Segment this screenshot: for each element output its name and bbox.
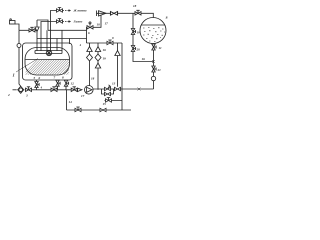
- valve 18 with handwheel on top pipe: [135, 10, 141, 15]
- valve 4 vertical: [35, 82, 39, 88]
- svg-text:12: 12: [71, 82, 75, 86]
- flow arrow into pump: [78, 88, 82, 91]
- riser x69.5 into jacket: [69, 39, 71, 45]
- lower pipe y110: [67, 109, 132, 111]
- drop x65: [66, 90, 68, 110]
- valve17 with round handle: [87, 22, 93, 29]
- line valve3 to drain4: [32, 89, 37, 91]
- valve lower plain: [100, 108, 106, 111]
- svg-text:19: 19: [137, 31, 141, 35]
- line diamond to valve3: [24, 89, 27, 91]
- svg-text:Ж помпе: Ж помпе: [73, 9, 88, 13]
- valve 21 lower: [152, 66, 156, 72]
- valve 19 on riser x133: [131, 29, 135, 35]
- valve 14: [115, 87, 121, 90]
- svg-text:21: 21: [157, 68, 162, 72]
- svg-text:15: 15: [103, 102, 107, 106]
- pipe y30 horizontal to x86.5: [48, 29, 87, 31]
- svg-text:17: 17: [105, 22, 109, 26]
- valve on top pipe plain: [110, 12, 117, 16]
- circle restrictor: [151, 76, 155, 80]
- pump circle with cross: [85, 86, 94, 95]
- svg-text:20: 20: [136, 48, 141, 52]
- wire left drop x20 down to diamond: [19, 30, 21, 86]
- tick on top pipe left end: [96, 11, 98, 17]
- sphere tank: [140, 18, 166, 44]
- jacket outer shell: [23, 43, 73, 80]
- wire valve V1 left leg down x50.5: [51, 11, 57, 52]
- pipe y38.5 horizontal: [37, 38, 87, 40]
- valve 12 with stem: [71, 87, 77, 92]
- check triangle on column C: [115, 51, 120, 56]
- valve 11 below sphere: [152, 44, 156, 50]
- valve with handwheel on y30 line: [29, 27, 35, 32]
- drain from jacket x36.5: [36, 80, 38, 90]
- sphere liquid line: [142, 24, 165, 26]
- dashed arrow V2: [63, 21, 71, 23]
- svg-text:11: 11: [159, 46, 162, 50]
- dashed arrow V1: [63, 10, 71, 12]
- junction tick on outlet: [138, 88, 141, 91]
- sphere liquid speckle: [143, 28, 165, 42]
- tank liquid hatching: [26, 60, 69, 75]
- check valve apex down on x37: [35, 27, 39, 32]
- wire valve17 left leg down: [86, 27, 89, 43]
- check triangle B2: [95, 63, 100, 68]
- svg-text:3: 3: [25, 94, 28, 98]
- internal header rect: [35, 51, 62, 54]
- circle trap on left drop: [17, 44, 21, 48]
- valve 9 on bus: [107, 40, 113, 45]
- riser x57: [56, 39, 58, 52]
- drain valve 7: [56, 80, 60, 86]
- junction tick y61.5: [152, 60, 155, 63]
- svg-text:13: 13: [112, 82, 116, 86]
- valve V2 with handwheel: [57, 19, 63, 24]
- bypass loop under valve 13: [102, 89, 114, 94]
- valve 13 diag stem: [105, 85, 111, 91]
- wire valve V2 left leg down x41: [41, 22, 57, 52]
- liquid level line in tank: [25, 59, 69, 61]
- svg-text:1: 1: [13, 73, 15, 78]
- drain x59.5 from jacket: [57, 80, 59, 90]
- svg-text:2: 2: [7, 93, 10, 97]
- wire valve17 right to riser: [93, 15, 101, 27]
- drain x68.5 from jacket: [65, 80, 67, 90]
- svg-text:14: 14: [69, 100, 73, 104]
- diamond on column A: [87, 54, 93, 61]
- vertical x37 with corner: [36, 20, 38, 51]
- label 1 leader line: [16, 59, 38, 73]
- check triangle on column A: [87, 47, 92, 52]
- svg-text:19: 19: [103, 57, 107, 61]
- riser x62: [61, 30, 63, 51]
- svg-text:18: 18: [133, 4, 137, 8]
- svg-text:16: 16: [142, 57, 146, 61]
- valve V1 with handwheel: [57, 8, 63, 13]
- valve mid with stem: [51, 87, 57, 92]
- diamond on column B: [95, 54, 101, 61]
- svg-text:10: 10: [97, 23, 101, 27]
- valve 20 on riser x133: [131, 46, 135, 52]
- check triangle B1: [95, 47, 100, 52]
- bottom-left line y90 stub: [13, 89, 17, 91]
- line y90 continues: [37, 89, 72, 91]
- svg-text:4: 4: [79, 43, 82, 47]
- column A x89.5: [89, 43, 91, 86]
- column C x118.5: [117, 43, 119, 87]
- wire tee to check line: [19, 29, 37, 31]
- pump outlet line y90: [93, 88, 153, 90]
- top pipe y13.5: [97, 13, 154, 17]
- gauge instrument top-left: [10, 19, 16, 24]
- bypass valve: [105, 92, 111, 95]
- riser x121: [121, 43, 123, 110]
- sphere bottom drop: [153, 44, 155, 90]
- wire corner x37 to x48: [37, 20, 48, 30]
- bus y43: [87, 42, 123, 44]
- drain valve 8: [64, 80, 68, 86]
- svg-text:17: 17: [81, 94, 85, 98]
- svg-text:Б: Б: [165, 16, 168, 20]
- svg-text:Газом: Газом: [73, 20, 84, 24]
- internal crossed circle: [46, 50, 51, 55]
- flow triangle right: [99, 11, 107, 16]
- svg-text:18: 18: [91, 77, 95, 81]
- inner tank cylinder: [25, 48, 70, 76]
- wire gauge to left drop: [15, 24, 19, 30]
- svg-text:16: 16: [103, 48, 107, 52]
- column B x98: [97, 43, 99, 90]
- valve 3: [26, 87, 32, 92]
- left riser x133 from top pipe: [133, 14, 154, 62]
- svg-text:4: 4: [40, 86, 43, 90]
- riser x47 into tank: [46, 30, 48, 51]
- valve 15 lower with stem: [75, 107, 81, 112]
- stub y100.5 with valve: [105, 100, 123, 102]
- diamond with circle: [18, 86, 24, 93]
